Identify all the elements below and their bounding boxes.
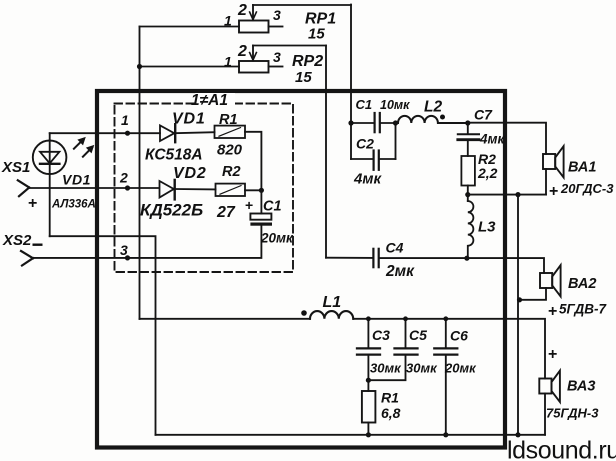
svg-text:2: 2 xyxy=(237,2,247,19)
svg-text:2мк: 2мк xyxy=(385,263,415,280)
speaker BA2 xyxy=(540,265,561,296)
wire BA3 bottom xyxy=(544,394,546,435)
svg-text:20мк: 20мк xyxy=(260,231,294,246)
wire R2 bottom xyxy=(467,186,469,202)
svg-text:VD1: VD1 xyxy=(62,172,91,188)
diode VD2 xyxy=(160,180,216,200)
svg-text:+: + xyxy=(549,183,558,200)
svg-text:R1: R1 xyxy=(219,112,238,128)
svg-text:2: 2 xyxy=(237,43,247,60)
svg-text:+: + xyxy=(548,346,557,363)
svg-text:ldsound.ru: ldsound.ru xyxy=(507,437,616,461)
inductor L3 xyxy=(468,201,474,258)
svg-text:3: 3 xyxy=(120,242,128,258)
svg-text:С4: С4 xyxy=(386,240,404,256)
node L3 bottom xyxy=(464,256,469,261)
resistor R2 (module) xyxy=(216,184,246,196)
wire XS1 to pin2 xyxy=(29,187,158,189)
svg-text:15: 15 xyxy=(308,26,325,43)
svg-text:30мк: 30мк xyxy=(370,361,402,376)
svg-text:АЛ336А: АЛ336А xyxy=(51,199,96,211)
speaker BA3 xyxy=(539,371,560,402)
L1 winding dot xyxy=(301,310,307,316)
svg-text:R2: R2 xyxy=(222,164,241,180)
svg-text:С3: С3 xyxy=(372,327,390,343)
wire C4 line xyxy=(326,257,373,259)
svg-text:1: 1 xyxy=(121,112,129,128)
node C5 top xyxy=(403,316,408,321)
node pin2 xyxy=(125,185,130,190)
node RP2 branch xyxy=(137,64,142,69)
node R2 bottom xyxy=(465,192,470,197)
capacitor C4 2мк xyxy=(373,249,378,267)
node right column rail xyxy=(515,432,520,437)
wire right column xyxy=(517,195,519,435)
svg-text:ВА3: ВА3 xyxy=(567,379,595,395)
svg-text:1: 1 xyxy=(224,54,232,70)
capacitor C7 4мк xyxy=(458,123,479,156)
speaker BA1 xyxy=(543,146,564,177)
node C7 top xyxy=(465,120,470,125)
potentiometer RP2 xyxy=(140,46,283,73)
svg-text:5ГДВ-7: 5ГДВ-7 xyxy=(559,302,607,317)
node C6 rail xyxy=(443,432,448,437)
wire LED top to pin1 xyxy=(49,133,51,140)
wire L1 input line xyxy=(140,318,311,320)
wire R2 to junction xyxy=(245,189,261,191)
svg-text:3: 3 xyxy=(273,7,281,23)
LED emission arrows xyxy=(74,138,94,157)
resistor R1 6,8 xyxy=(362,391,376,423)
wire L1 to BA3 xyxy=(353,319,545,379)
svg-text:L1: L1 xyxy=(323,294,342,311)
node C1 feed xyxy=(348,120,353,125)
wire C7 node to BA1 xyxy=(468,123,546,154)
label unit A1 xyxy=(195,93,235,105)
svg-text:2: 2 xyxy=(119,170,128,186)
svg-text:6,8: 6,8 xyxy=(381,405,401,421)
svg-text:2,2: 2,2 xyxy=(477,165,498,181)
wire pin1 line xyxy=(50,132,160,134)
svg-text:10мк: 10мк xyxy=(380,98,410,112)
svg-text:+: + xyxy=(548,303,557,320)
wire LED bottom down xyxy=(49,174,51,236)
dashed box of unit A1 xyxy=(115,104,294,273)
wire bottom rail xyxy=(156,434,546,436)
svg-text:КД522Б: КД522Б xyxy=(140,201,203,220)
svg-text:+: + xyxy=(28,195,37,212)
svg-text:С5: С5 xyxy=(409,327,427,343)
potentiometer RP1 xyxy=(140,5,283,33)
wire left feed column from RP to L1 xyxy=(139,27,141,320)
wire R1 bottom xyxy=(367,423,369,435)
svg-text:ВА1: ВА1 xyxy=(568,160,596,176)
node C3 top xyxy=(366,316,371,321)
svg-text:КС518А: КС518А xyxy=(145,147,203,164)
node R1 rail xyxy=(366,432,371,437)
capacitor C1 (module, polarized) xyxy=(250,190,272,225)
svg-text:1≠А1: 1≠А1 xyxy=(191,92,228,109)
svg-text:L2: L2 xyxy=(424,99,442,116)
wire XS2 to pin3 and C1 bottom xyxy=(33,226,261,258)
inductor L1 xyxy=(310,311,353,319)
resistor R2 2,2 xyxy=(461,156,475,186)
node C3 C5 join xyxy=(366,378,371,383)
node C6 top xyxy=(443,316,448,321)
svg-text:1: 1 xyxy=(224,13,232,29)
connector XS1 xyxy=(18,180,29,196)
node pin1 xyxy=(125,131,130,136)
capacitor C1 upper 10мк xyxy=(351,113,396,132)
node pin3 xyxy=(125,255,130,260)
svg-text:+: + xyxy=(245,197,253,213)
resistor R1 (module) xyxy=(215,126,246,138)
svg-text:XS2: XS2 xyxy=(2,232,32,249)
svg-text:20мк: 20мк xyxy=(444,361,477,376)
svg-text:С1: С1 xyxy=(356,97,373,112)
svg-text:30мк: 30мк xyxy=(406,361,438,376)
wire C4 to BA2 xyxy=(379,258,544,273)
wire BA1 bottom xyxy=(545,169,547,195)
svg-text:VD1: VD1 xyxy=(172,111,206,128)
LED VD1 photodiode xyxy=(33,141,67,175)
capacitor C6 20мк xyxy=(434,319,457,435)
diode VD1 xyxy=(160,124,215,142)
svg-text:4мк: 4мк xyxy=(479,132,505,147)
svg-text:3: 3 xyxy=(273,49,281,65)
svg-text:VD2: VD2 xyxy=(173,165,207,182)
svg-text:XS1: XS1 xyxy=(1,159,30,176)
capacitor C3 30мк xyxy=(357,319,380,391)
label XS2 minus xyxy=(33,244,43,246)
node module junction xyxy=(259,188,264,193)
wire R1 to junction xyxy=(245,132,261,191)
L2 winding dot xyxy=(440,115,445,120)
svg-text:820: 820 xyxy=(217,142,243,159)
svg-text:4мк: 4мк xyxy=(353,171,382,188)
svg-text:15: 15 xyxy=(295,69,312,86)
svg-text:С1: С1 xyxy=(263,199,282,215)
svg-text:С6: С6 xyxy=(450,328,468,344)
svg-text:R1: R1 xyxy=(381,390,399,406)
inductor L2 xyxy=(396,116,468,123)
svg-text:75ГДН-3: 75ГДН-3 xyxy=(546,406,599,421)
wire LED bottom to ground column xyxy=(50,236,156,435)
svg-text:27: 27 xyxy=(216,204,236,221)
wire BA2 bottom xyxy=(518,288,546,300)
wire RP2 wiper feed xyxy=(253,45,326,47)
svg-text:20ГДС-3: 20ГДС-3 xyxy=(560,181,614,196)
svg-text:С2: С2 xyxy=(356,136,374,152)
svg-text:L3: L3 xyxy=(478,219,496,236)
capacitor C5 30мк xyxy=(368,319,417,380)
svg-text:С7: С7 xyxy=(474,107,493,123)
node C1 C2 join xyxy=(393,120,398,125)
connector XS2 xyxy=(21,251,33,266)
outer module thick border box xyxy=(97,91,505,448)
wire RP1 wiper to top feed xyxy=(253,4,351,6)
svg-text:RP2: RP2 xyxy=(292,53,323,70)
node BA1 bottom column xyxy=(515,192,520,197)
node BA2 bottom xyxy=(517,297,522,302)
svg-text:ВА2: ВА2 xyxy=(568,276,596,292)
wire BA1 bottom rail xyxy=(468,194,546,196)
wire vertical feed from RP2 to C4 xyxy=(325,46,327,258)
wire vertical feed from RP1 to C1 C2 xyxy=(350,5,352,160)
capacitor C2 upper 4мк xyxy=(351,123,396,170)
